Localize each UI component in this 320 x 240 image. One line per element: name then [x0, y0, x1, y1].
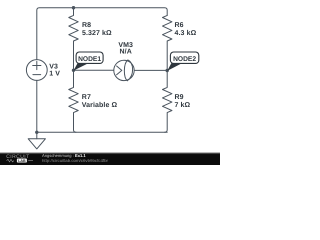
V3 plus sign [33, 61, 41, 69]
junction dot top rail / R8 [72, 6, 75, 9]
wire voltmeter to NODE2 [135, 69, 167, 71]
svg-text:R9: R9 [175, 94, 184, 101]
svg-text:R7: R7 [82, 94, 91, 101]
svg-text:http://circuitlab.com/c6vb9bcf: http://circuitlab.com/c6vb9bcfc4fbr [42, 158, 109, 163]
footer bar [0, 153, 220, 165]
svg-text:R8: R8 [82, 22, 91, 29]
wire top rail with left drop to V3 and right drop to R6 [37, 8, 167, 60]
wire bottom rail [37, 131, 167, 133]
junction dot bottom rail / ground [35, 131, 38, 134]
svg-text:7 kΩ: 7 kΩ [175, 101, 191, 109]
voltmeter VM3 circle [114, 60, 134, 80]
svg-text:N/A: N/A [120, 48, 132, 56]
wire V3 bottom lead [36, 80, 38, 132]
wire NODE1 to voltmeter [74, 69, 114, 71]
resistor R8 [69, 8, 78, 71]
resistor R9 [163, 71, 172, 133]
svg-text:4.3 kΩ: 4.3 kΩ [175, 29, 197, 37]
svg-text:5.327 kΩ: 5.327 kΩ [82, 29, 112, 37]
resistor R6 [163, 15, 172, 70]
ground triangle [28, 139, 45, 149]
voltmeter arrow glyph [117, 66, 122, 75]
V3 minus sign [33, 74, 41, 76]
svg-text:V3: V3 [49, 64, 58, 71]
svg-text:NODE1: NODE1 [78, 56, 101, 63]
node flag NODE1 [74, 52, 104, 71]
resistor R7 [69, 70, 78, 132]
node A dot NODE1 [72, 69, 75, 72]
svg-text:LAB: LAB [18, 159, 26, 163]
ground stub [36, 132, 38, 139]
voltmeter meridian arc 1 [124, 60, 127, 81]
node B dot NODE2 [166, 69, 169, 72]
svg-text:1 V: 1 V [49, 71, 60, 78]
svg-text:R6: R6 [175, 22, 184, 29]
voltmeter meridian arc 2 [127, 60, 132, 81]
svg-text:NODE2: NODE2 [173, 56, 196, 63]
CircuitLab logo [6, 154, 33, 163]
voltage source V3 circle [26, 60, 47, 81]
node flag NODE2 [167, 52, 199, 71]
svg-text:Variable Ω: Variable Ω [82, 101, 118, 109]
